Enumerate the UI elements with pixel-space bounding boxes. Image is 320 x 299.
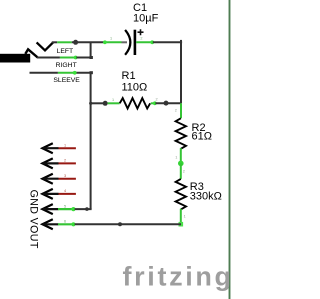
svg-text:6: 6 bbox=[64, 220, 66, 224]
SLEEVE lead end blob bbox=[73, 71, 77, 75]
pin 2 red wire bbox=[59, 162, 76, 164]
wire SLEEVE lead to vertical bbox=[76, 72, 93, 74]
svg-text:fritzing: fritzing bbox=[123, 262, 232, 292]
capacitor C1 left lead bbox=[104, 41, 122, 43]
R1 right green lead bbox=[151, 102, 156, 104]
svg-text:10µF: 10µF bbox=[133, 13, 159, 25]
wire SLEEVE pin bbox=[30, 72, 58, 74]
R3 bottom connection blob bbox=[179, 222, 184, 227]
R3 top green lead bbox=[180, 163, 182, 179]
LEFT pin green lead bbox=[57, 41, 72, 43]
R2 top green lead bbox=[180, 103, 182, 118]
C1 right lead end blob bbox=[150, 40, 154, 44]
junction dot R1 left bbox=[103, 101, 108, 106]
wire right spine vertical bbox=[180, 40, 182, 103]
svg-text:1: 1 bbox=[64, 143, 66, 147]
header CN pin 4 arrow bbox=[42, 189, 58, 199]
header CN pin 5 arrow bbox=[42, 204, 58, 214]
R1 left green lead bbox=[108, 102, 120, 104]
svg-text:R1: R1 bbox=[122, 70, 136, 82]
svg-text:SLEEVE: SLEEVE bbox=[53, 77, 80, 84]
header CN pin 3 arrow bbox=[42, 174, 58, 184]
svg-text:RIGHT: RIGHT bbox=[56, 62, 77, 69]
header CN pin 1 arrow bbox=[42, 143, 58, 153]
svg-text:4: 4 bbox=[64, 189, 66, 193]
audio jack J1 plug body bbox=[0, 49, 38, 62]
bendpoint pin5 wire bbox=[85, 207, 89, 211]
wire vertical SLEEVE to header pin5 bbox=[90, 73, 92, 209]
wire LEFT pin to C1 bbox=[52, 41, 57, 43]
svg-text:110Ω: 110Ω bbox=[122, 81, 148, 93]
junction dot R1 right bbox=[164, 101, 169, 106]
pin 4 red wire bbox=[59, 193, 76, 195]
pin 6 green wire bbox=[58, 223, 75, 225]
junction nub vertical-R1 bbox=[89, 102, 92, 105]
header CN pin 6 arrow bbox=[42, 219, 58, 229]
svg-text:61Ω: 61Ω bbox=[192, 131, 212, 143]
resistor R1 left wire bbox=[91, 102, 106, 104]
jack tip contact (LEFT) V spring bbox=[37, 42, 54, 50]
wire RIGHT pin bbox=[37, 57, 60, 59]
wire LEFT lead to C1 bbox=[72, 41, 104, 43]
capacitor C1 straight plate bbox=[134, 30, 137, 55]
wire R1 to spine bbox=[155, 102, 181, 104]
svg-text:2: 2 bbox=[156, 98, 158, 102]
capacitor C1 right lead bbox=[136, 41, 153, 43]
svg-text:1: 1 bbox=[184, 215, 186, 219]
svg-text:2: 2 bbox=[140, 37, 142, 41]
R3 bottom green lead bbox=[180, 209, 182, 225]
pin 3 red wire bbox=[59, 178, 76, 180]
C1 plus sign bbox=[138, 29, 144, 35]
resistor R2 body bbox=[176, 118, 186, 148]
svg-text:1: 1 bbox=[175, 156, 177, 160]
pin 5 green wire bbox=[58, 208, 75, 210]
wire pin6 to R3 bottom bbox=[75, 223, 181, 225]
svg-text:3: 3 bbox=[64, 174, 66, 178]
resistor R3 body bbox=[176, 179, 186, 209]
wire pin5 to vertical bbox=[75, 208, 92, 210]
R2 bottom green lead bbox=[180, 148, 182, 163]
green junction dot bbox=[178, 161, 184, 167]
svg-text:2: 2 bbox=[64, 159, 66, 163]
RIGHT lead end blob bbox=[74, 56, 78, 60]
net wire at right edge bbox=[229, 0, 231, 299]
RIGHT pin green lead bbox=[60, 57, 77, 59]
svg-text:2: 2 bbox=[175, 109, 177, 113]
svg-text:1: 1 bbox=[110, 36, 112, 40]
pin 1 red wire bbox=[59, 147, 76, 149]
wire vertical LEFT-RIGHT bbox=[90, 42, 92, 57]
svg-text:LEFT: LEFT bbox=[57, 48, 74, 55]
wire RIGHT lead to vertical bbox=[76, 57, 92, 59]
svg-text:2: 2 bbox=[183, 170, 185, 174]
svg-text:330kΩ: 330kΩ bbox=[190, 191, 222, 203]
header CN pin 2 arrow bbox=[42, 158, 58, 168]
junction dot LEFT net bbox=[73, 40, 78, 45]
svg-text:GND VOUT: GND VOUT bbox=[28, 190, 40, 249]
capacitor C1 curved plate bbox=[125, 30, 130, 55]
resistor R1 body bbox=[120, 98, 150, 108]
R1 right lead end blob bbox=[153, 101, 157, 105]
SLEEVE pin green lead bbox=[58, 72, 76, 74]
bendpoint dot bottom wire bbox=[118, 222, 122, 226]
svg-text:5: 5 bbox=[64, 204, 66, 208]
wire C1 to right spine bbox=[153, 41, 182, 43]
C1 left lead start blob bbox=[103, 40, 107, 44]
svg-text:1: 1 bbox=[112, 98, 114, 102]
